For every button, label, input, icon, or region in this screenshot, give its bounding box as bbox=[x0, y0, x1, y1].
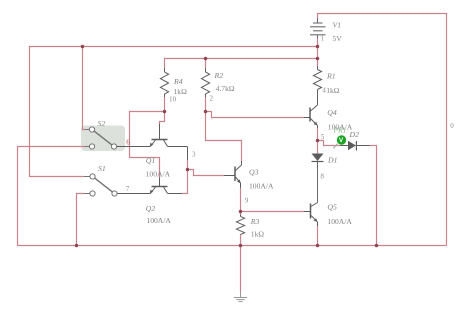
switch S2 highlight box bbox=[81, 126, 125, 152]
diode D1 bbox=[312, 154, 324, 162]
wire net 2: R2 bottom down to Q3 collector bbox=[206, 97, 242, 161]
svg-text:10: 10 bbox=[169, 95, 177, 103]
transistor Q3 bbox=[224, 161, 242, 188]
resistor R2 bbox=[201, 68, 209, 97]
switch S1 bbox=[84, 174, 117, 196]
svg-text:100A/A: 100A/A bbox=[146, 216, 171, 225]
battery V1 bbox=[310, 18, 326, 38]
wire net 10 jog to Q1 base bbox=[160, 112, 165, 125]
wire S2 top throw to rail 1 bbox=[83, 47, 86, 130]
wire net 9: Q3 emitter down to R3 bbox=[240, 188, 242, 215]
wire net 8: D1 cathode to Q5 collector bbox=[317, 162, 319, 203]
svg-text:9: 9 bbox=[245, 196, 249, 204]
svg-text:Q4: Q4 bbox=[327, 108, 337, 117]
svg-text:100A/A: 100A/A bbox=[249, 182, 274, 191]
svg-text:D2: D2 bbox=[349, 130, 360, 139]
svg-text:Q1: Q1 bbox=[146, 156, 156, 165]
wire net 10: R4 bottom lead bbox=[164, 97, 166, 112]
wire net 9 to Q5 base bbox=[241, 211, 305, 213]
transistor Q5 bbox=[304, 203, 318, 227]
svg-text:1: 1 bbox=[321, 35, 325, 43]
transistor Q1 (rotated, base up, emitter to S2, collector right) bbox=[117, 124, 188, 160]
svg-text:Q3: Q3 bbox=[249, 168, 259, 177]
svg-text:2: 2 bbox=[209, 94, 213, 102]
svg-text:1kΩ: 1kΩ bbox=[251, 229, 265, 238]
transistor Q4 bbox=[304, 105, 318, 129]
LED D2 bbox=[341, 145, 349, 147]
svg-text:4.7kΩ: 4.7kΩ bbox=[216, 84, 235, 93]
wire ground stem bbox=[240, 246, 242, 292]
transistor Q2 (rotated, base up, emitter to S1, collector right) bbox=[117, 178, 182, 194]
wire battery positive lead down bbox=[317, 38, 319, 66]
ground bbox=[234, 292, 247, 302]
wire R3 bottom to ground rail bbox=[240, 235, 242, 246]
svg-text:R3: R3 bbox=[250, 217, 260, 226]
probe on D2 anode bbox=[333, 144, 337, 149]
svg-text:R1: R1 bbox=[326, 72, 336, 81]
wire R2 top lead bbox=[205, 59, 207, 69]
wire ground rail bottom and left riser to S2 bottom throw bbox=[18, 147, 447, 246]
wire Q5 emitter to ground rail bbox=[317, 226, 319, 246]
svg-text:8: 8 bbox=[320, 173, 324, 181]
svg-text:Q5: Q5 bbox=[327, 203, 337, 212]
svg-text:7: 7 bbox=[126, 185, 130, 193]
svg-text:6: 6 bbox=[126, 138, 130, 146]
resistor R4 bbox=[160, 68, 168, 97]
wire net 5: Q4 emitter down to junction bbox=[317, 128, 319, 141]
resistor R1 bbox=[313, 66, 321, 105]
svg-text:R4: R4 bbox=[173, 77, 183, 86]
svg-text:100A/A: 100A/A bbox=[146, 170, 171, 179]
wire net 10 run to Q2 base bbox=[130, 112, 165, 178]
svg-text:5V: 5V bbox=[333, 34, 343, 43]
wire net 5 jog to D2 anode bbox=[318, 141, 341, 146]
svg-text:S2: S2 bbox=[98, 119, 106, 128]
svg-text:5: 5 bbox=[321, 133, 325, 141]
svg-text:100A/A: 100A/A bbox=[327, 217, 352, 226]
wire Vcc rail 2 to R4 top bbox=[165, 59, 318, 69]
wire battery negative to right edge and down bbox=[318, 14, 447, 246]
wire net 5 to D1 anode bbox=[317, 141, 319, 154]
svg-text:V: V bbox=[339, 137, 344, 144]
svg-text:V1: V1 bbox=[333, 21, 342, 30]
wire net 3: Q1 collector down to Q2 collector bbox=[182, 160, 188, 194]
resistor R3 bbox=[236, 215, 244, 235]
svg-text:3: 3 bbox=[192, 151, 196, 159]
wire net 2 jog to Q4 base bbox=[206, 112, 305, 118]
svg-text:0: 0 bbox=[450, 122, 454, 130]
svg-text:Q2: Q2 bbox=[146, 204, 156, 213]
switch S2 bbox=[85, 127, 117, 149]
wire D2 cathode to ground rail bbox=[370, 146, 377, 246]
svg-text:S1: S1 bbox=[98, 164, 106, 173]
svg-text:1kΩ: 1kΩ bbox=[326, 86, 340, 95]
svg-text:R2: R2 bbox=[214, 71, 224, 80]
svg-text:D1: D1 bbox=[327, 156, 338, 165]
wire net 3 jog to Q3 base bbox=[188, 170, 225, 176]
wire Vcc rail 1 and left drop to S1 top throw bbox=[30, 47, 318, 177]
wire S1 bottom throw to ground rail bbox=[77, 194, 85, 246]
